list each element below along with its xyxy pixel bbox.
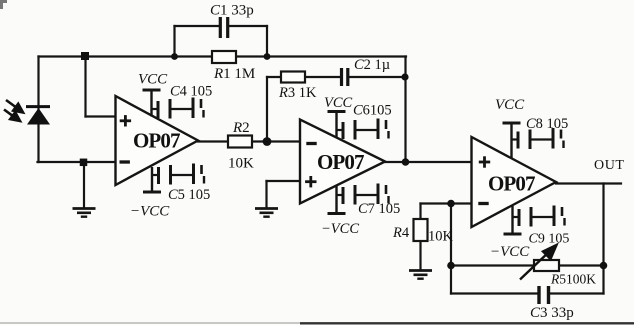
wire: photodiode branch vertical <box>37 57 39 163</box>
svg-text:C9 105: C9 105 <box>529 232 570 247</box>
resistor R2 10K <box>228 136 252 148</box>
wire: OUT feedback right column <box>602 184 604 294</box>
capacitor C1 33p <box>220 17 227 38</box>
-VCC rail symbol at U3 pin 4 <box>504 206 522 234</box>
svg-text:−VCC: −VCC <box>490 244 530 260</box>
junction: top net / U1 + branch <box>81 52 89 60</box>
resistor R1 1M <box>212 51 236 63</box>
junction: U1 - input / ground <box>80 159 88 167</box>
ground (U2 + input net) <box>255 209 278 217</box>
svg-text:R1 1M: R1 1M <box>213 66 255 82</box>
scan artifact: top-left corner mark <box>0 0 7 9</box>
wire: U1 - input to ground stub <box>83 162 85 208</box>
wire: C1 loop right vertical <box>266 26 268 57</box>
capacitor C3 33p <box>539 286 549 304</box>
junction: R5 row right node <box>600 262 608 270</box>
wire: C3 row right <box>550 292 604 294</box>
svg-text:VCC: VCC <box>324 95 353 111</box>
potentiometer R5 100K body <box>534 260 559 271</box>
photodiode VD (light input) <box>26 107 50 125</box>
wire: C2 to right column <box>350 76 406 78</box>
svg-text:R3 1K: R3 1K <box>278 85 317 101</box>
capacitor C2 1u <box>342 68 348 86</box>
ground (R4) <box>409 271 432 279</box>
-VCC rail symbol at U2 pin 4 <box>328 186 346 214</box>
svg-text:C6105: C6105 <box>353 103 392 119</box>
wire: U2 + input stub <box>267 180 301 182</box>
junction: C1/R1 left node <box>171 53 178 60</box>
wire: U1 - input row <box>38 161 116 163</box>
wire: junction down to U1 + input <box>84 57 86 117</box>
capacitor C7 105 (-VCC bypass, U2) <box>337 184 389 205</box>
VCC rail symbol at U1 pin 7 <box>143 90 161 117</box>
wire: U1 + input stub <box>86 115 116 117</box>
junction: U2 output node <box>402 158 410 166</box>
op-amp U3 OP07 <box>472 137 557 227</box>
VCC rail symbol at U3 pin 7 <box>503 123 521 159</box>
light arrows into photodiode <box>4 100 23 121</box>
junction: U3 - input node <box>447 200 455 208</box>
wire: R3-C2 feedback row left part <box>267 76 340 78</box>
wire: U1 output through R2 to U2 - input <box>198 140 300 142</box>
svg-text:OP07: OP07 <box>488 172 535 196</box>
wire: U3 output / OUT net <box>556 182 621 184</box>
capacitor C5 105 (-VCC bypass, U1) <box>152 164 204 185</box>
svg-text:C7 105: C7 105 <box>358 201 400 217</box>
VCC rail symbol at U2 pin 7 <box>328 112 346 138</box>
wire: C1 loop left vertical <box>173 26 175 57</box>
svg-text:OUT: OUT <box>594 158 625 173</box>
scan artifact: bottom page rule <box>0 322 634 324</box>
svg-text:−VCC: −VCC <box>321 221 359 237</box>
svg-text:C1 33p: C1 33p <box>210 3 254 19</box>
junction: R5 row left node <box>447 262 455 270</box>
svg-text:R5100K: R5100K <box>550 272 596 287</box>
op-amp U1 OP07 <box>116 96 199 185</box>
op-amp U2 OP07 <box>300 120 385 204</box>
junction: C1/R1 right node <box>264 53 271 60</box>
svg-text:C3 33p: C3 33p <box>530 305 574 321</box>
svg-text:10K: 10K <box>428 229 454 245</box>
wire: R5 feedback row <box>451 264 604 266</box>
capacitor C8 105 (VCC bypass, U3) <box>512 128 564 149</box>
svg-text:R2: R2 <box>232 120 250 136</box>
svg-text:10K: 10K <box>228 156 254 172</box>
svg-text:C2 1µ: C2 1µ <box>354 57 390 73</box>
resistor R3 1K <box>281 72 305 83</box>
svg-text:R4: R4 <box>392 225 410 241</box>
junction: C2 right / column <box>401 73 408 80</box>
svg-text:−VCC: −VCC <box>130 204 170 220</box>
junction: R2 output / R3 branch node <box>263 137 272 146</box>
svg-text:VCC: VCC <box>495 97 525 113</box>
svg-text:OP07: OP07 <box>317 150 364 174</box>
wire: R3/C2 row down to U2 - input node <box>266 77 268 142</box>
ground (U1 - input net) <box>73 209 96 217</box>
potentiometer R5 wiper arrow <box>520 245 557 280</box>
capacitor C9 105 (-VCC bypass, U3) <box>513 206 565 227</box>
wire: C3 row left <box>451 292 538 294</box>
svg-text:C4 105: C4 105 <box>170 84 212 100</box>
wire: R4 bottom lead to ground <box>419 241 421 269</box>
svg-text:C5 105: C5 105 <box>168 187 210 203</box>
-VCC rail symbol at U1 pin 4 <box>143 167 161 192</box>
svg-text:OP07: OP07 <box>133 129 180 153</box>
wire: U2 output to U3 + input <box>385 161 472 163</box>
resistor R4 10K (vertical) <box>414 219 428 241</box>
wire: top feedback net, photodiode cathode to C1/R1 and to x=406 column <box>39 55 407 57</box>
wire: feedback left column <box>450 204 452 294</box>
wire: U2 + input to ground stub <box>265 181 267 208</box>
capacitor C4 105 (VCC bypass, U1) <box>152 98 204 119</box>
wire: C1 loop top right <box>229 25 267 27</box>
wire: C1 loop top left <box>175 25 220 27</box>
svg-text:VCC: VCC <box>138 72 168 88</box>
svg-text:C8 105: C8 105 <box>526 116 568 132</box>
capacitor C6 105 (VCC bypass, U2) <box>337 119 389 140</box>
wire: U3 - input row <box>421 202 472 204</box>
wire: R4 top lead <box>419 204 421 220</box>
wire: right column x=406 from top net to U2 output <box>404 57 406 163</box>
